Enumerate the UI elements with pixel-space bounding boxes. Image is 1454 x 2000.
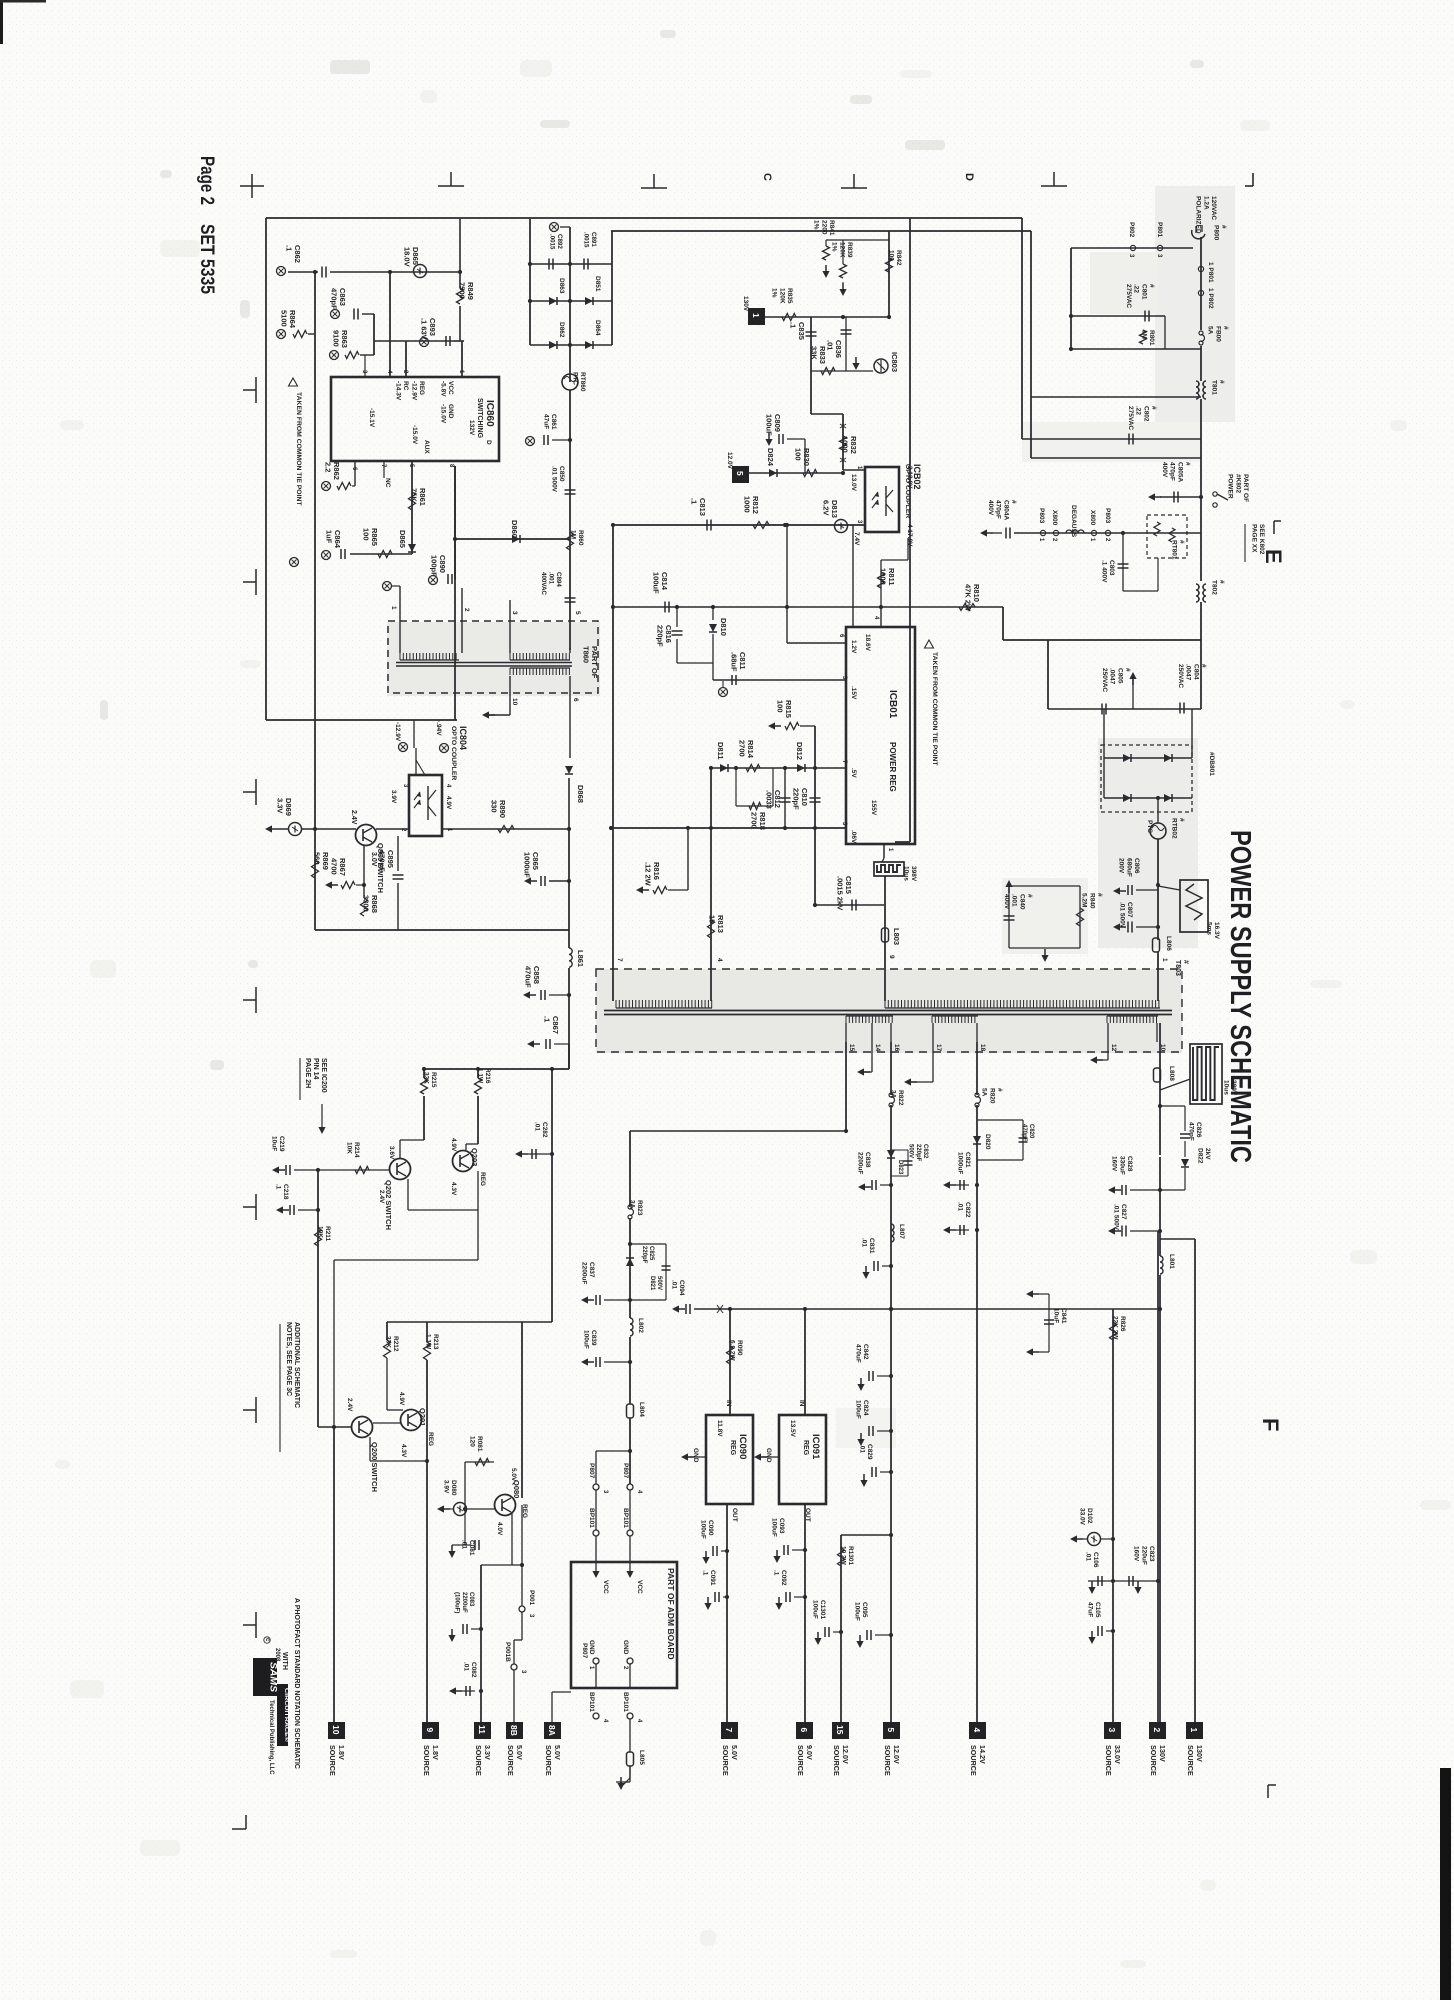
svg-text:5: 5 bbox=[574, 611, 581, 615]
svg-text:D810: D810 bbox=[719, 618, 728, 636]
svg-text:Q080: Q080 bbox=[512, 1480, 521, 1498]
svg-text:P801: P801 bbox=[1156, 222, 1163, 238]
svg-text:2.4V: 2.4V bbox=[350, 810, 357, 825]
svg-text:BP101: BP101 bbox=[588, 1508, 595, 1528]
svg-text:C84110uF: C84110uF bbox=[1052, 1308, 1067, 1324]
svg-text:SOURCE: SOURCE bbox=[422, 1745, 431, 1776]
svg-text:R8645100: R8645100 bbox=[279, 310, 297, 329]
svg-text:D: D bbox=[485, 440, 492, 445]
svg-text:SOURCE: SOURCE bbox=[506, 1745, 515, 1776]
svg-text:1.8V: 1.8V bbox=[337, 1745, 346, 1760]
svg-text:9.0V: 9.0V bbox=[805, 1745, 814, 1760]
svg-text:155V: 155V bbox=[870, 800, 877, 816]
svg-text:15: 15 bbox=[848, 1044, 855, 1052]
svg-text:R130110 2W: R130110 2W bbox=[839, 1546, 854, 1566]
svg-text:PIN 14: PIN 14 bbox=[312, 1058, 319, 1080]
svg-text:Q202 SWITCH: Q202 SWITCH bbox=[384, 1180, 393, 1230]
svg-text:-15.0V: -15.0V bbox=[411, 425, 418, 445]
svg-text:R2131 1W: R2131 1W bbox=[424, 1334, 439, 1350]
svg-text:SEE K802PAGE XX: SEE K802PAGE XX bbox=[1250, 524, 1265, 555]
svg-text:VCC: VCC bbox=[602, 1580, 609, 1594]
svg-text:.15V: .15V bbox=[850, 686, 857, 700]
svg-text:9: 9 bbox=[425, 1728, 435, 1733]
svg-text:1 P801: 1 P801 bbox=[1207, 262, 1214, 283]
svg-text:PTC: PTC bbox=[1146, 820, 1153, 833]
svg-text:13.5V: 13.5V bbox=[789, 1420, 796, 1438]
svg-text:OPTO COUPLER: OPTO COUPLER bbox=[450, 726, 457, 780]
svg-text:TAKEN FROM COMMON TIE POINT: TAKEN FROM COMMON TIE POINT bbox=[295, 392, 302, 506]
svg-text:C1301100uF: C1301100uF bbox=[811, 1600, 826, 1620]
svg-text:500VD821: 500VD821 bbox=[649, 1276, 662, 1291]
svg-text:D860: D860 bbox=[510, 520, 519, 538]
svg-text:C811.68uF: C811.68uF bbox=[729, 652, 747, 672]
svg-text:REG: REG bbox=[802, 1440, 809, 1456]
svg-text:L802: L802 bbox=[637, 1318, 644, 1333]
svg-text:398V10us: 398V10us bbox=[902, 866, 917, 882]
svg-text:7.4V: 7.4V bbox=[853, 532, 860, 546]
svg-text:SOURCE: SOURCE bbox=[883, 1745, 892, 1776]
svg-text:1 P802: 1 P802 bbox=[1207, 288, 1214, 309]
svg-text:TAKEN FROM COMMON TIE POINT: TAKEN FROM COMMON TIE POINT bbox=[931, 652, 938, 766]
svg-text:ADDITIONAL SCHEMATIC: ADDITIONAL SCHEMATIC bbox=[293, 1322, 300, 1408]
svg-text:6: 6 bbox=[799, 1728, 809, 1733]
svg-text:5: 5 bbox=[886, 1728, 896, 1733]
svg-text:SOURCE: SOURCE bbox=[796, 1745, 805, 1776]
svg-text:AUX: AUX bbox=[423, 440, 430, 454]
svg-text:P001: P001 bbox=[528, 1590, 535, 1606]
svg-text:4: 4 bbox=[716, 958, 723, 962]
svg-text:D824: D824 bbox=[766, 448, 775, 467]
svg-text:C21910uF: C21910uF bbox=[270, 1136, 285, 1152]
svg-text:18.6V: 18.6V bbox=[864, 634, 871, 652]
svg-text:12.0V: 12.0V bbox=[726, 452, 733, 470]
svg-text:11: 11 bbox=[477, 1725, 487, 1734]
svg-text:L807: L807 bbox=[898, 1224, 905, 1239]
svg-text:Q200 SWITCH: Q200 SWITCH bbox=[370, 1442, 379, 1492]
svg-text:GND: GND bbox=[622, 1640, 629, 1655]
svg-text:IC804: IC804 bbox=[458, 726, 468, 750]
svg-text:P802: P802 bbox=[1128, 222, 1135, 238]
svg-text:D864: D864 bbox=[594, 320, 601, 336]
svg-text:C891.0015: C891.0015 bbox=[583, 232, 597, 248]
svg-text:L806: L806 bbox=[1165, 936, 1172, 951]
svg-text:3: 3 bbox=[511, 611, 518, 615]
svg-text:L805: L805 bbox=[638, 1750, 645, 1765]
svg-text:VCC: VCC bbox=[636, 1580, 643, 1594]
svg-text:5.0V: 5.0V bbox=[730, 1745, 739, 1760]
svg-text:2 12.0V: 2 12.0V bbox=[906, 466, 913, 489]
svg-text:13.0V: 13.0V bbox=[850, 474, 857, 492]
svg-text:BP101: BP101 bbox=[622, 1508, 629, 1528]
svg-text:F: F bbox=[1258, 1418, 1283, 1431]
svg-text:PART OF ADM BOARD: PART OF ADM BOARD bbox=[666, 1568, 676, 1660]
svg-text:BP101: BP101 bbox=[622, 1692, 629, 1712]
svg-text:DEGAUSS: DEGAUSS bbox=[1070, 505, 1077, 538]
svg-text:P803: P803 bbox=[1104, 508, 1111, 524]
svg-text:.5V: .5V bbox=[850, 768, 857, 778]
svg-text:-15.1V: -15.1V bbox=[368, 408, 375, 428]
svg-text:REG: REG bbox=[427, 1432, 434, 1446]
svg-text:L803: L803 bbox=[892, 928, 901, 945]
svg-text:8A: 8A bbox=[547, 1725, 557, 1736]
svg-text:SOURCE: SOURCE bbox=[1104, 1745, 1113, 1776]
svg-text:5: 5 bbox=[735, 471, 745, 476]
svg-text:17: 17 bbox=[935, 1044, 942, 1052]
svg-text:L801: L801 bbox=[1168, 1254, 1175, 1269]
svg-text:4.3V: 4.3V bbox=[400, 1444, 407, 1458]
svg-text:D863: D863 bbox=[558, 278, 565, 294]
svg-text:OUT: OUT bbox=[731, 1508, 738, 1522]
svg-text:4.9V: 4.9V bbox=[398, 1392, 405, 1406]
svg-text:33.0V: 33.0V bbox=[1113, 1745, 1122, 1764]
svg-text:-12.9V: -12.9V bbox=[394, 722, 401, 742]
svg-text:10: 10 bbox=[511, 698, 518, 706]
svg-text:2.4V: 2.4V bbox=[346, 1398, 353, 1412]
svg-text:3: 3 bbox=[1107, 1728, 1117, 1733]
svg-text:CIRCUITRACE®: CIRCUITRACE® bbox=[283, 1688, 290, 1742]
svg-text:SOURCE: SOURCE bbox=[1149, 1745, 1158, 1776]
svg-text:ICB01: ICB01 bbox=[887, 690, 898, 719]
svg-text:SOURCE: SOURCE bbox=[474, 1745, 483, 1776]
svg-text:P807: P807 bbox=[581, 1643, 588, 1659]
svg-text:R8639100: R8639100 bbox=[331, 330, 349, 348]
svg-text:D820: D820 bbox=[984, 1134, 991, 1150]
svg-text:D86518.0V: D86518.0V bbox=[402, 247, 420, 267]
svg-text:7: 7 bbox=[724, 1728, 734, 1733]
svg-text:SOURCE: SOURCE bbox=[544, 1745, 553, 1776]
svg-text:10: 10 bbox=[331, 1725, 341, 1735]
svg-text:WITH: WITH bbox=[281, 1652, 288, 1670]
svg-text:GND: GND bbox=[588, 1640, 595, 1655]
svg-text:D868: D868 bbox=[576, 785, 585, 803]
svg-text:1.8V: 1.8V bbox=[431, 1745, 440, 1760]
svg-text:A PHOTOFACT STANDARD NOTATION: A PHOTOFACT STANDARD NOTATION SCHEMATIC bbox=[293, 1598, 300, 1769]
svg-text:R8683300: R8683300 bbox=[361, 895, 379, 913]
svg-text:4.0V: 4.0V bbox=[496, 1522, 503, 1536]
svg-text:#DB801: #DB801 bbox=[1208, 752, 1215, 776]
svg-text:IC803: IC803 bbox=[890, 352, 899, 372]
svg-text:IC090: IC090 bbox=[737, 1434, 748, 1459]
svg-text:L861: L861 bbox=[576, 950, 585, 967]
svg-text:3.0V: 3.0V bbox=[370, 852, 377, 867]
svg-text:D862: D862 bbox=[558, 322, 565, 338]
svg-text:1.2V: 1.2V bbox=[850, 640, 857, 654]
svg-text:D865: D865 bbox=[398, 530, 407, 548]
svg-text:1: 1 bbox=[1161, 958, 1168, 962]
svg-text:C892.0015: C892.0015 bbox=[549, 234, 563, 250]
svg-text:130V: 130V bbox=[1158, 1745, 1167, 1762]
svg-text:4 17.9V: 4 17.9V bbox=[906, 524, 913, 547]
svg-text:P807: P807 bbox=[622, 1463, 629, 1479]
svg-text:R8111000: R8111000 bbox=[878, 568, 896, 586]
svg-text:14: 14 bbox=[874, 1044, 881, 1052]
svg-text:SOURCE: SOURCE bbox=[969, 1745, 978, 1776]
svg-text:9: 9 bbox=[888, 955, 895, 959]
svg-text:Technical Publishing, LLC: Technical Publishing, LLC bbox=[268, 1700, 274, 1775]
svg-text:R8142700: R8142700 bbox=[737, 740, 755, 759]
svg-text:NC: NC bbox=[384, 478, 391, 488]
svg-text:D: D bbox=[963, 173, 975, 181]
svg-text:15: 15 bbox=[835, 1725, 845, 1735]
svg-text:Q203: Q203 bbox=[470, 1148, 479, 1166]
svg-text:14.2V: 14.2V bbox=[978, 1745, 987, 1764]
svg-text:P001B: P001B bbox=[504, 1642, 511, 1662]
svg-text:POWER SUPPLY SCHEMATIC: POWER SUPPLY SCHEMATIC bbox=[1224, 830, 1256, 1163]
svg-text:GND: GND bbox=[692, 1448, 699, 1463]
svg-text:12.0V: 12.0V bbox=[892, 1745, 901, 1764]
svg-text:POWER REG: POWER REG bbox=[888, 742, 897, 792]
svg-text:D8693.3V: D8693.3V bbox=[275, 798, 293, 816]
svg-text:3.3V: 3.3V bbox=[483, 1745, 492, 1760]
svg-text:P807: P807 bbox=[588, 1463, 595, 1479]
svg-text:130V: 130V bbox=[742, 296, 749, 312]
svg-text:-.94V: -.94V bbox=[435, 720, 442, 736]
svg-text:D8136.2V: D8136.2V bbox=[821, 500, 839, 518]
svg-text:7: 7 bbox=[616, 958, 623, 962]
svg-text:IC091: IC091 bbox=[810, 1434, 821, 1460]
svg-text:D851: D851 bbox=[594, 276, 601, 292]
svg-text:X800: X800 bbox=[1089, 510, 1096, 526]
svg-text:.06V: .06V bbox=[850, 830, 857, 844]
svg-text:D10233.0V: D10233.0V bbox=[1078, 1508, 1093, 1526]
svg-text:Q201: Q201 bbox=[418, 1408, 427, 1426]
svg-text:Page 2: Page 2 bbox=[196, 156, 217, 205]
svg-text:L804: L804 bbox=[638, 1402, 645, 1417]
svg-text:3.9V: 3.9V bbox=[390, 790, 397, 804]
svg-text:8B: 8B bbox=[509, 1725, 519, 1736]
svg-text:NOTES, SEE PAGE 3C: NOTES, SEE PAGE 3C bbox=[285, 1322, 292, 1396]
svg-text:11.8V: 11.8V bbox=[716, 1420, 723, 1437]
svg-text:289V10us: 289V10us bbox=[1222, 1080, 1237, 1096]
svg-text:L808: L808 bbox=[1168, 1066, 1175, 1081]
svg-text:12: 12 bbox=[1110, 1044, 1117, 1052]
svg-text:R2161 1W: R2161 1W bbox=[476, 1068, 491, 1084]
svg-text:5.0V: 5.0V bbox=[515, 1745, 524, 1760]
svg-text:4.9V: 4.9V bbox=[445, 796, 452, 810]
svg-text:D811: D811 bbox=[716, 742, 725, 760]
svg-text:P803: P803 bbox=[1038, 508, 1045, 524]
svg-text:D823: D823 bbox=[897, 1160, 903, 1175]
svg-text:12.0V: 12.0V bbox=[841, 1745, 850, 1764]
svg-text:IN: IN bbox=[798, 1400, 805, 1407]
svg-text:SEE IC200: SEE IC200 bbox=[320, 1058, 327, 1093]
svg-text:BP101: BP101 bbox=[588, 1692, 595, 1712]
svg-text:X800: X800 bbox=[1051, 510, 1058, 526]
svg-text:2.4V: 2.4V bbox=[378, 1190, 385, 1204]
svg-text:16: 16 bbox=[893, 1044, 900, 1052]
svg-text:D812: D812 bbox=[795, 742, 804, 760]
svg-text:IN: IN bbox=[725, 1400, 732, 1407]
svg-text:4.3V: 4.3V bbox=[450, 1182, 457, 1196]
svg-text:4.9V: 4.9V bbox=[450, 1138, 457, 1152]
svg-text:R8497500: R8497500 bbox=[457, 282, 475, 300]
svg-text:R8674700: R8674700 bbox=[329, 858, 347, 876]
svg-text:SET 5335: SET 5335 bbox=[196, 224, 217, 294]
svg-text:GND: GND bbox=[765, 1448, 772, 1463]
svg-text:SOURCE: SOURCE bbox=[328, 1745, 337, 1776]
svg-text:1: 1 bbox=[1189, 1728, 1199, 1733]
svg-text:6: 6 bbox=[572, 698, 579, 702]
svg-text:SOURCE: SOURCE bbox=[721, 1745, 730, 1776]
svg-text:REG: REG bbox=[479, 1172, 486, 1186]
svg-text:5.0V: 5.0V bbox=[553, 1745, 562, 1760]
svg-text:3.6V: 3.6V bbox=[388, 1146, 395, 1160]
svg-text:5.0V: 5.0V bbox=[510, 1468, 517, 1482]
svg-text:2: 2 bbox=[1152, 1728, 1162, 1733]
svg-text:R8121000: R8121000 bbox=[742, 496, 760, 514]
svg-text:SOURCE: SOURCE bbox=[1186, 1745, 1195, 1776]
svg-text:C: C bbox=[761, 173, 773, 181]
svg-text:REG: REG bbox=[729, 1440, 736, 1456]
svg-text:IC860: IC860 bbox=[484, 400, 495, 427]
svg-text:1: 1 bbox=[390, 606, 397, 610]
svg-text:SAMS: SAMS bbox=[268, 1662, 279, 1693]
svg-text:SOURCE: SOURCE bbox=[832, 1745, 841, 1776]
svg-text:C86147uF: C86147uF bbox=[542, 414, 557, 430]
svg-text:C10547uF: C10547uF bbox=[1086, 1602, 1101, 1618]
svg-text:1: 1 bbox=[751, 313, 761, 318]
svg-text:4: 4 bbox=[972, 1728, 982, 1733]
svg-text:PAGE 2H: PAGE 2H bbox=[304, 1058, 311, 1088]
svg-text:C812.0033: C812.0033 bbox=[764, 790, 782, 809]
svg-text:130V: 130V bbox=[1195, 1745, 1204, 1762]
svg-text:SWITCHING: SWITCHING bbox=[476, 398, 483, 439]
svg-text:18: 18 bbox=[979, 1044, 986, 1052]
svg-text:2: 2 bbox=[463, 608, 470, 612]
svg-text:R8321000: R8321000 bbox=[840, 436, 858, 454]
svg-text:132V: 132V bbox=[468, 420, 475, 436]
